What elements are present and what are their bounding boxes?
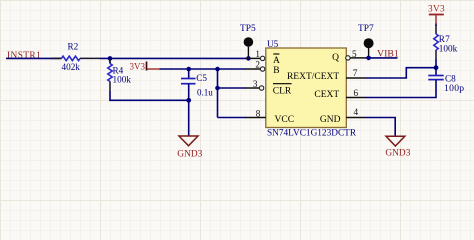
svg-text:5: 5 [352,49,357,59]
IC U5 SN74LVC1G123DCTR body [266,39,357,139]
svg-text:0.1u: 0.1u [197,87,213,97]
ground GND3 left [177,136,202,159]
svg-text:GND3: GND3 [177,149,202,159]
svg-text:U5: U5 [267,39,279,49]
wire C5 bottom stem [188,84,190,100]
wire C8 top stem [435,68,437,76]
svg-text:1: 1 [255,49,260,59]
svg-text:100k: 100k [113,75,132,85]
wire R4 bottom to GND rail [110,91,189,100]
resistor R4 [108,59,131,91]
svg-text:100p: 100p [444,83,464,94]
svg-text:A: A [273,56,280,66]
wire GND stem left [188,100,190,136]
svg-text:CLR: CLR [273,86,292,96]
wire INSTR1 left segment [6,57,62,59]
junction TP7 [366,56,371,61]
svg-text:GND: GND [320,115,341,125]
test point TP5 [240,24,256,59]
svg-text:Q: Q [332,53,339,63]
junction C5 top [186,67,191,72]
pin 3 CLR [246,79,292,97]
pin 2 B [246,59,280,76]
svg-text:TP7: TP7 [358,24,374,34]
svg-text:4: 4 [354,107,359,117]
wire R7 bottom to junction [435,59,437,68]
pin 8 VCC [246,108,295,125]
svg-text:REXT/CEXT: REXT/CEXT [287,72,339,82]
svg-text:B: B [273,66,279,76]
svg-text:2: 2 [255,59,260,69]
svg-text:8: 8 [256,108,261,118]
wire R4 upper stub [109,58,111,63]
svg-text:3V3: 3V3 [428,4,445,14]
junction VCC branch [215,67,220,72]
pin 5 Q [332,49,366,63]
svg-text:INSTR1: INSTR1 [7,51,41,61]
wire to pin 8 [218,117,247,119]
junction TP5 [246,56,251,61]
svg-text:R2: R2 [68,42,79,52]
svg-text:402k: 402k [62,62,81,72]
wire Q to VIB1 [366,57,398,59]
power port 3V3 right [428,4,445,23]
svg-text:SN74LVC1G123DCTR: SN74LVC1G123DCTR [267,129,357,139]
svg-text:VIB1: VIB1 [377,48,399,59]
junction GND rail [186,98,191,103]
svg-text:7: 7 [353,68,358,78]
pin 4 GND [320,107,366,125]
wire 3V3 to R7 [435,24,437,27]
svg-text:GND3: GND3 [385,149,410,159]
ground GND3 right [385,136,410,158]
wire pin 4 to ground [366,118,395,137]
junction pin 3 branch [215,86,220,91]
resistor R2 [52,42,101,72]
capacitor C8 [428,74,464,94]
junction REXT/C8 [434,65,439,70]
wire R2 to pin 1 [100,57,246,59]
pin 1 A [246,49,281,66]
svg-text:TP5: TP5 [240,24,256,34]
wire C8 bottom to pin 6 [366,80,436,98]
wire to pin 3 [218,87,247,89]
capacitor C5 [181,73,213,97]
svg-text:100k: 100k [439,43,458,53]
svg-text:6: 6 [354,88,359,98]
resistor R7 [434,25,458,59]
wire 3V3 to pin 2 [159,68,246,70]
wire VCC branch vertical [217,69,219,118]
power port 3V3 left [130,62,160,72]
test point TP7 [358,24,374,58]
pin 6 CEXT [314,88,366,100]
svg-text:CEXT: CEXT [314,90,339,100]
svg-text:C5: C5 [196,73,207,83]
svg-text:3: 3 [253,79,258,89]
pin 7 REXT/CEXT [287,68,366,82]
wire C5 top stem [188,69,190,78]
junction R4 top [108,56,113,61]
wire pin 7 step to REXT junction [366,68,436,78]
svg-text:3V3: 3V3 [130,62,146,72]
svg-text:VCC: VCC [275,115,295,125]
